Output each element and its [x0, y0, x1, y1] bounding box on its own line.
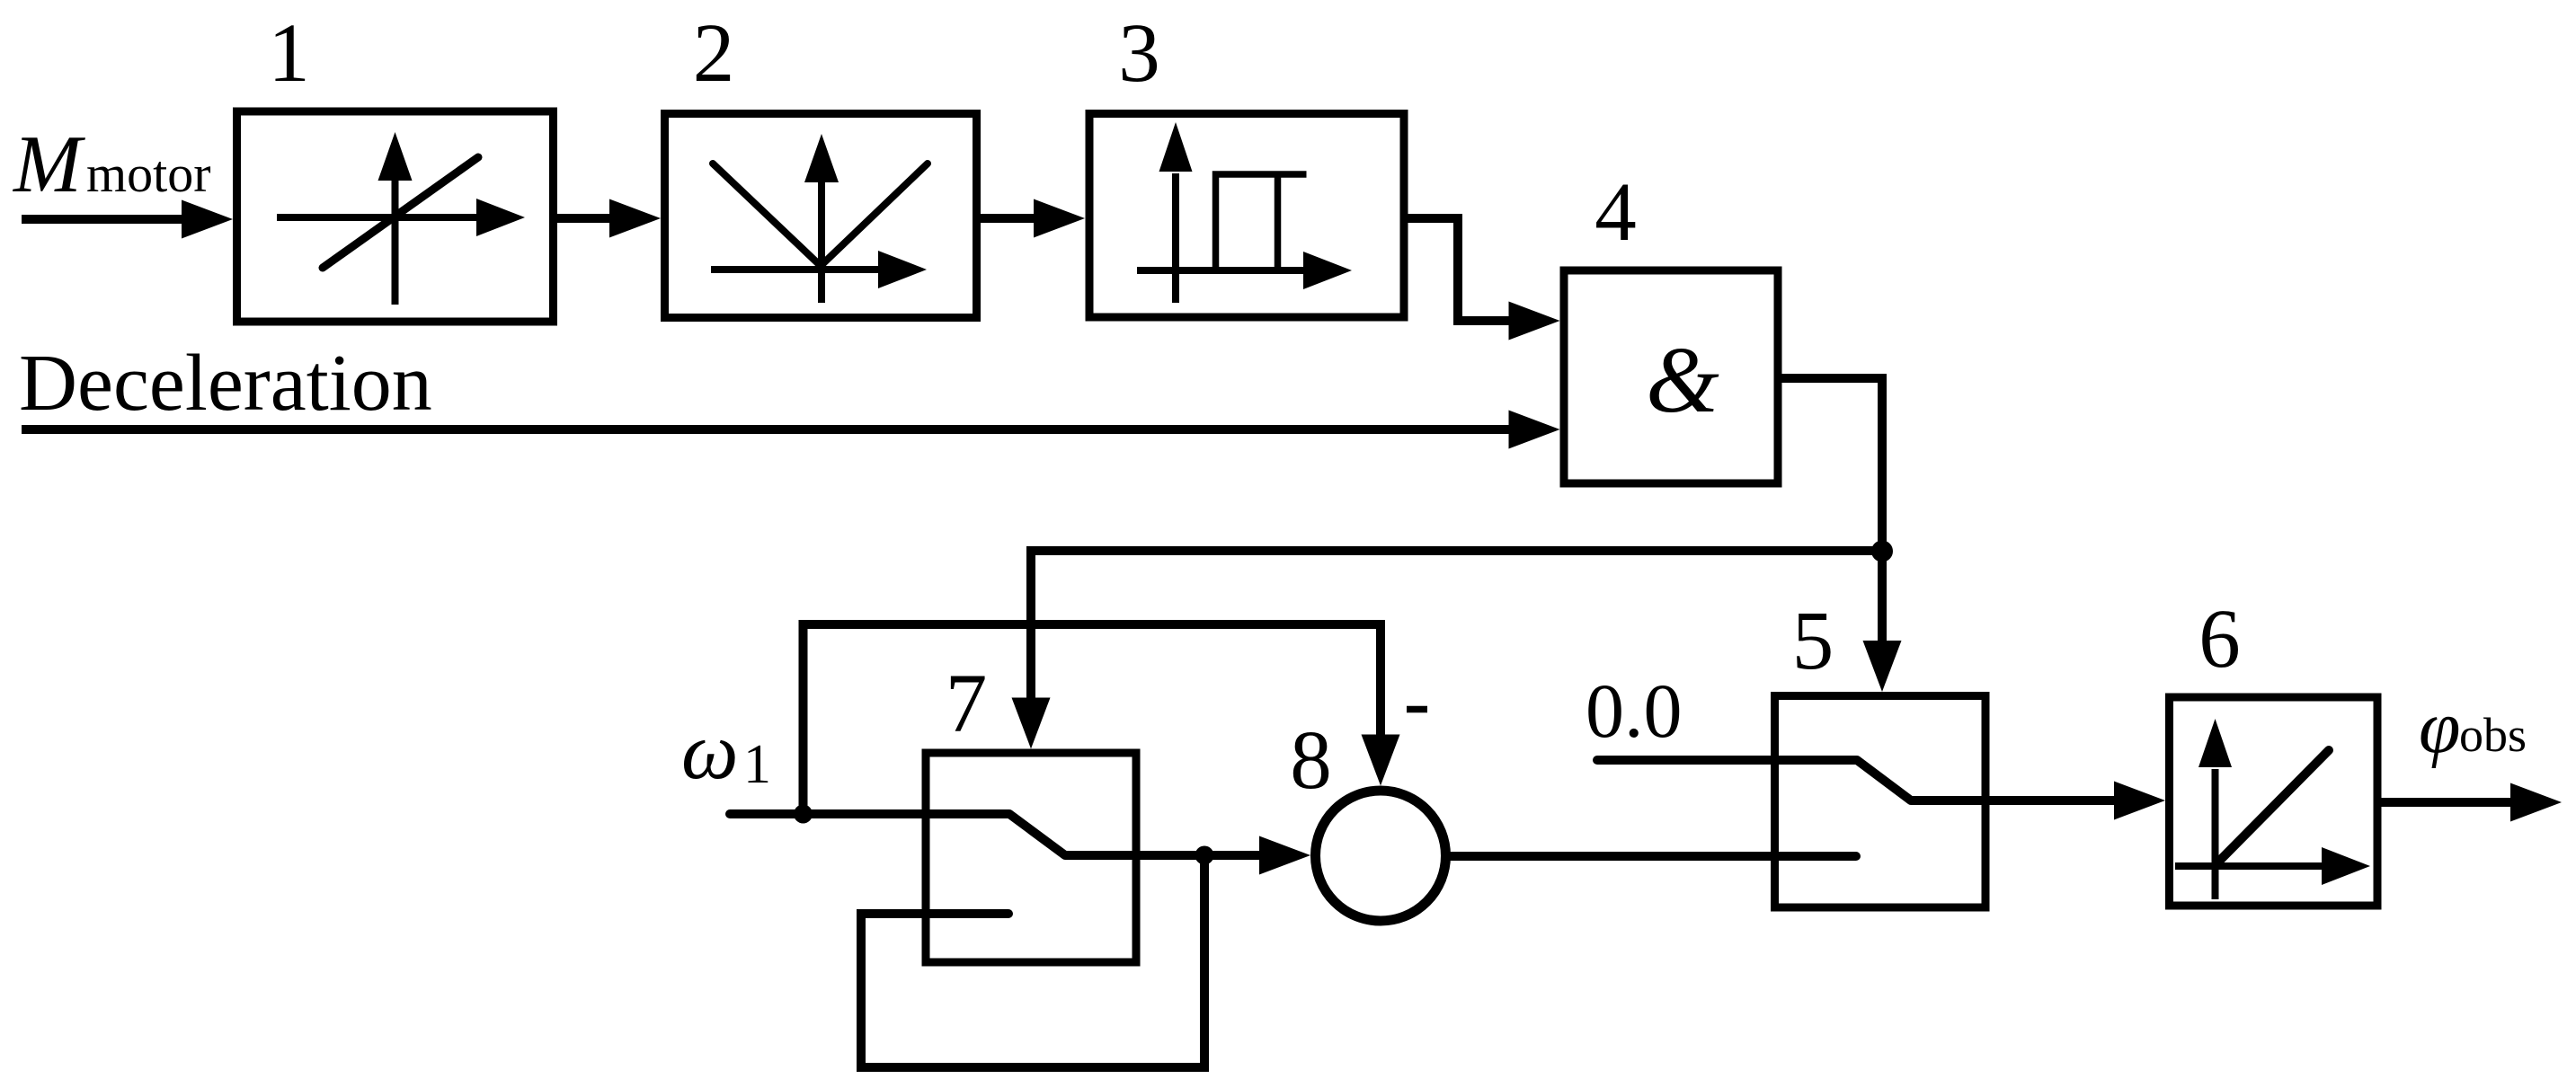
block 1 rate limiter: [237, 111, 554, 322]
block 6 ramp: [2170, 697, 2378, 906]
wire block1 to block2: [554, 214, 611, 223]
arrowhead into circle 8 top: [1362, 735, 1400, 786]
block 2 h-axis: [711, 251, 927, 288]
node phi obs label: [2419, 685, 2527, 769]
wire feedback loop: [861, 855, 1204, 1067]
block 3 h-axis: [1137, 252, 1352, 289]
block 3 pulse right edge: [1275, 174, 1282, 270]
block 6 diagonal: [2216, 750, 2330, 865]
block 3 pulse shape: [1216, 174, 1307, 270]
arrowhead into block 7 top: [1012, 698, 1051, 749]
block 2 v-axis: [804, 134, 839, 303]
wire block6 output: [2377, 798, 2511, 807]
junction node omega1: [794, 805, 813, 824]
svg-text:ω: ω: [681, 707, 739, 796]
wire circle8 to block5 lower stub: [1445, 852, 1856, 861]
arrowhead into block 5 top: [1863, 641, 1902, 692]
block 6 h-axis: [2175, 847, 2370, 885]
node Mmotor input label: [12, 119, 211, 209]
svg-text:8: 8: [1290, 714, 1332, 807]
arrowhead into block 1: [182, 200, 233, 239]
svg-text:M: M: [12, 119, 85, 209]
block 6 v-axis: [2198, 719, 2232, 899]
svg-text:Deceleration: Deceleration: [19, 339, 432, 428]
block 4 AND: [1564, 270, 1778, 483]
svg-text:2: 2: [693, 7, 735, 100]
wire omega1 through switch7 to circle8: [730, 814, 1262, 855]
svg-text:1: 1: [268, 7, 310, 100]
arrowhead into block 6: [2114, 782, 2165, 820]
arrowhead into block 4 upper: [1509, 302, 1560, 341]
svg-text:obs: obs: [2459, 708, 2527, 762]
summing circle 8: [1316, 791, 1446, 921]
wire omega1 to minus input of circle8: [804, 624, 1381, 814]
block 1 h-axis: [277, 199, 525, 236]
wire junction to block7 control: [1031, 551, 1882, 699]
svg-text:motor: motor: [86, 145, 211, 203]
svg-text:4: 4: [1594, 166, 1637, 259]
arrowhead into block 2: [609, 199, 661, 238]
block 2 absolute value: [665, 114, 977, 318]
svg-text:&: &: [1646, 327, 1719, 432]
arrowhead into block 3: [1034, 199, 1085, 238]
block 2 V shape: [713, 164, 928, 266]
block 3 hysteresis: [1089, 114, 1404, 318]
svg-text:1: 1: [743, 734, 771, 795]
wire Deceleration: [22, 425, 1511, 434]
wire block3 to block4: [1404, 218, 1511, 321]
svg-text:3: 3: [1118, 7, 1160, 100]
wire block2 to block3: [977, 214, 1035, 223]
arrowhead output: [2510, 783, 2562, 822]
svg-text:6: 6: [2198, 593, 2241, 685]
minus sign: [1407, 706, 1427, 713]
arrowhead into circle 8: [1259, 836, 1310, 875]
arrowhead into block 4 lower: [1509, 411, 1560, 449]
svg-text:7: 7: [946, 658, 988, 750]
block 1 v-axis: [378, 132, 413, 305]
wire block4 output to junction to block5: [1778, 378, 1882, 641]
wire Mmotor input: [22, 215, 185, 224]
block 1 diagonal: [323, 157, 478, 268]
svg-text:φ: φ: [2419, 685, 2460, 769]
svg-text:5: 5: [1792, 595, 1834, 687]
junction node switch7 output: [1195, 846, 1214, 865]
label omega 1: [681, 707, 771, 796]
junction node: [1871, 541, 1893, 562]
wire 0.0 through switch5 to block6: [1597, 760, 2116, 800]
block 5 switch: [1775, 696, 1986, 908]
svg-text:0.0: 0.0: [1586, 668, 1683, 754]
block 7 switch: [926, 753, 1136, 962]
block 3 v-axis: [1159, 122, 1193, 303]
